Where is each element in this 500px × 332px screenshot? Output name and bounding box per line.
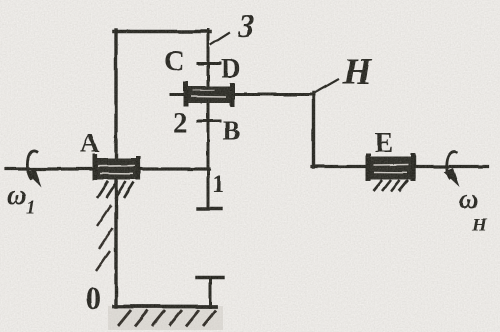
bearing A body — [93, 154, 141, 180]
bearing E hatch — [373, 180, 408, 192]
gear tooth tick C-D — [198, 62, 220, 65]
wire carrier H horizontal — [171, 93, 314, 96]
ground shading strip — [108, 306, 223, 330]
ground hatch bottom — [118, 310, 216, 326]
wire frame right vertical — [209, 278, 212, 308]
wire link3 top edge — [114, 30, 210, 34]
wire input shaft left — [6, 167, 209, 170]
gear 1 cap — [198, 207, 221, 210]
wire gear-shaft vertical line 2-3 — [207, 30, 210, 208]
planet bearing block on carrier — [184, 82, 235, 107]
wire output shaft right — [312, 165, 488, 168]
leader line label 3 — [211, 33, 229, 45]
rotation arrow omegaH — [444, 152, 460, 187]
bearing E body — [366, 154, 416, 182]
wire frame bottom — [114, 305, 216, 309]
ground hatch along fixed post — [96, 205, 113, 271]
wire carrier H vertical — [312, 93, 315, 167]
wire link3 left vertical / fixed link 0 post — [114, 30, 117, 307]
leader line label H — [316, 80, 338, 93]
gear tooth tick 2-B — [198, 120, 220, 123]
bearing A hatch — [97, 181, 134, 199]
rotation arrow omega1 — [27, 151, 42, 187]
frame stop cap — [197, 276, 223, 279]
